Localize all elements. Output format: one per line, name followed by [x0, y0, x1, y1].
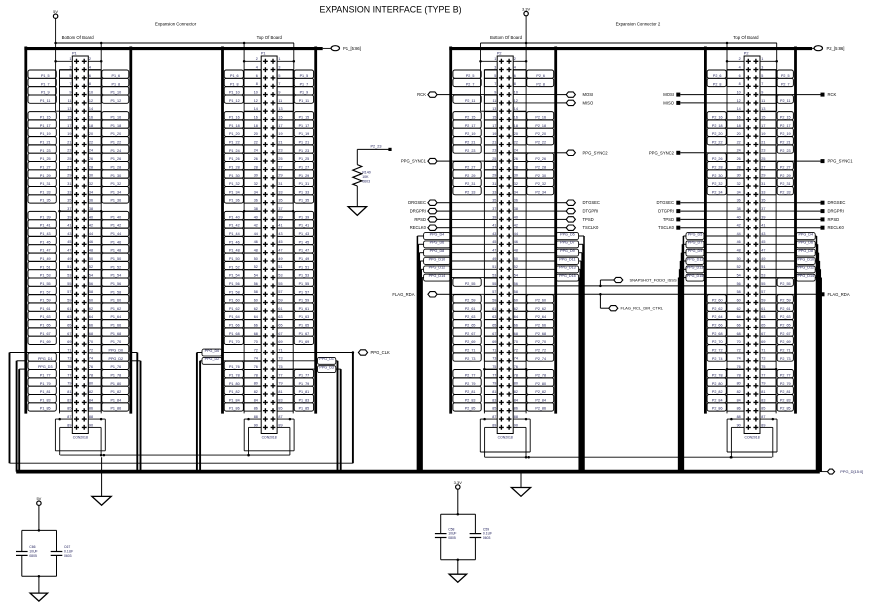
svg-text:1: 1 — [761, 57, 763, 61]
svg-text:5V: 5V — [53, 9, 58, 14]
svg-text:40: 40 — [89, 215, 93, 219]
svg-text:54: 54 — [737, 274, 741, 278]
svg-text:65: 65 — [761, 323, 765, 327]
svg-text:P2_81: P2_81 — [465, 390, 476, 394]
svg-text:83: 83 — [492, 398, 496, 402]
svg-text:32: 32 — [89, 182, 93, 186]
svg-text:Expansion Connector 2: Expansion Connector 2 — [616, 22, 661, 27]
svg-text:66: 66 — [89, 323, 93, 327]
svg-text:P1_27: P1_27 — [40, 165, 51, 169]
svg-text:P1_5: P1_5 — [300, 74, 309, 78]
svg-text:P1_44: P1_44 — [110, 232, 121, 236]
svg-text:P2_84: P2_84 — [535, 398, 546, 402]
svg-text:P1_77: P1_77 — [40, 373, 51, 377]
svg-text:P2_31: P2_31 — [465, 182, 476, 186]
svg-text:P1_68: P1_68 — [229, 332, 240, 336]
svg-text:P2_86: P2_86 — [712, 407, 723, 411]
svg-text:24: 24 — [514, 149, 518, 153]
svg-text:P1_34: P1_34 — [110, 190, 121, 194]
svg-text:23: 23 — [492, 149, 496, 153]
svg-text:P1_27: P1_27 — [299, 165, 310, 169]
svg-text:P1_26: P1_26 — [110, 157, 121, 161]
svg-text:9: 9 — [494, 90, 496, 94]
svg-text:21: 21 — [761, 140, 765, 144]
svg-text:50: 50 — [514, 257, 518, 261]
svg-text:24: 24 — [254, 149, 258, 153]
svg-text:P1_33: P1_33 — [299, 190, 310, 194]
svg-text:P2_81: P2_81 — [780, 390, 791, 394]
svg-text:16: 16 — [514, 115, 518, 119]
svg-text:P1_66: P1_66 — [229, 324, 240, 328]
svg-text:47: 47 — [67, 249, 71, 253]
svg-text:76: 76 — [254, 365, 258, 369]
svg-text:P1_18: P1_18 — [229, 124, 240, 128]
svg-text:P1_[5:86]: P1_[5:86] — [343, 46, 361, 51]
svg-text:11: 11 — [278, 99, 282, 103]
svg-text:PPG_D2: PPG_D2 — [205, 357, 220, 361]
svg-text:P1_68: P1_68 — [110, 332, 121, 336]
svg-text:40: 40 — [514, 215, 518, 219]
svg-text:64: 64 — [737, 315, 741, 319]
svg-text:P1: P1 — [72, 51, 77, 55]
svg-text:29: 29 — [761, 174, 765, 178]
svg-text:80: 80 — [737, 382, 741, 386]
svg-text:P2_17: P2_17 — [780, 124, 791, 128]
svg-text:73: 73 — [278, 357, 282, 361]
svg-text:DTGSEC: DTGSEC — [583, 200, 600, 205]
svg-text:P2_32: P2_32 — [712, 182, 723, 186]
svg-text:DRGPRI: DRGPRI — [410, 209, 426, 214]
svg-text:P1_7: P1_7 — [300, 82, 309, 86]
svg-text:P2_20: P2_20 — [535, 132, 546, 136]
svg-text:P1_30: P1_30 — [229, 174, 240, 178]
svg-text:P1_9: P1_9 — [41, 91, 50, 95]
svg-text:71: 71 — [278, 348, 282, 352]
svg-text:P1_22: P1_22 — [110, 141, 121, 145]
svg-text:PPG_D2: PPG_D2 — [109, 357, 124, 361]
svg-text:84: 84 — [89, 398, 93, 402]
svg-text:49: 49 — [278, 257, 282, 261]
svg-text:P2_68: P2_68 — [535, 332, 546, 336]
svg-text:P2_60: P2_60 — [535, 299, 546, 303]
svg-text:15: 15 — [492, 115, 496, 119]
svg-text:35: 35 — [278, 199, 282, 203]
svg-text:14: 14 — [254, 107, 258, 111]
svg-text:88: 88 — [514, 415, 518, 419]
svg-text:PPG_D15: PPG_D15 — [687, 274, 704, 278]
svg-text:P2_[5:86]: P2_[5:86] — [827, 46, 845, 51]
svg-text:25: 25 — [761, 157, 765, 161]
svg-text:26: 26 — [737, 157, 741, 161]
svg-text:P2_67: P2_67 — [465, 332, 476, 336]
svg-text:P1_57: P1_57 — [299, 290, 310, 294]
svg-text:P1_31: P1_31 — [40, 182, 51, 186]
svg-text:36: 36 — [254, 199, 258, 203]
svg-text:3: 3 — [494, 66, 496, 70]
svg-text:P2: P2 — [497, 51, 502, 55]
svg-text:12: 12 — [514, 99, 518, 103]
svg-text:12: 12 — [254, 99, 258, 103]
svg-text:38: 38 — [89, 207, 93, 211]
svg-text:52: 52 — [737, 265, 741, 269]
svg-text:P1_64: P1_64 — [229, 315, 240, 319]
svg-text:P1: P1 — [261, 51, 266, 55]
svg-text:P1_53: P1_53 — [40, 274, 51, 278]
svg-text:66: 66 — [254, 323, 258, 327]
svg-text:71: 71 — [761, 348, 765, 352]
svg-text:36: 36 — [514, 199, 518, 203]
svg-text:TPSD: TPSD — [663, 217, 674, 222]
svg-text:72: 72 — [737, 348, 741, 352]
svg-text:20: 20 — [89, 132, 93, 136]
svg-text:P1_65: P1_65 — [299, 324, 310, 328]
svg-text:51: 51 — [761, 265, 765, 269]
svg-text:29: 29 — [67, 174, 71, 178]
svg-text:34: 34 — [89, 190, 93, 194]
svg-text:DRGSEC: DRGSEC — [408, 200, 426, 205]
svg-text:DTGPRI: DTGPRI — [658, 209, 674, 214]
svg-text:P2_78: P2_78 — [712, 373, 723, 377]
svg-text:P2_74: P2_74 — [535, 357, 546, 361]
svg-text:44: 44 — [254, 232, 258, 236]
svg-text:25: 25 — [67, 157, 71, 161]
svg-text:P1_46: P1_46 — [229, 240, 240, 244]
svg-text:90: 90 — [514, 423, 518, 427]
svg-text:17: 17 — [67, 124, 71, 128]
svg-text:PPG_D4: PPG_D4 — [430, 232, 445, 236]
svg-text:TSCLK0: TSCLK0 — [658, 225, 674, 230]
svg-text:18: 18 — [737, 124, 741, 128]
svg-text:P1_78: P1_78 — [229, 373, 240, 377]
svg-text:P2_64: P2_64 — [535, 315, 546, 319]
svg-text:28: 28 — [89, 165, 93, 169]
svg-text:RPSD: RPSD — [414, 217, 426, 222]
svg-text:DRGPRI: DRGPRI — [828, 209, 844, 214]
svg-text:P1_28: P1_28 — [229, 165, 240, 169]
svg-text:43: 43 — [761, 232, 765, 236]
svg-text:39: 39 — [278, 215, 282, 219]
svg-text:P1_83: P1_83 — [299, 398, 310, 402]
svg-text:P1_16: P1_16 — [110, 116, 121, 120]
svg-text:26: 26 — [254, 157, 258, 161]
svg-text:76: 76 — [737, 365, 741, 369]
svg-text:49: 49 — [67, 257, 71, 261]
svg-text:P2_69: P2_69 — [780, 340, 791, 344]
svg-text:55: 55 — [492, 282, 496, 286]
svg-text:75: 75 — [492, 365, 496, 369]
svg-text:85: 85 — [278, 407, 282, 411]
svg-text:37: 37 — [761, 207, 765, 211]
svg-text:P1_59: P1_59 — [40, 299, 51, 303]
svg-text:41: 41 — [278, 224, 282, 228]
svg-text:P1_70: P1_70 — [229, 340, 240, 344]
svg-text:P2_61: P2_61 — [780, 307, 791, 311]
svg-text:P2_64: P2_64 — [712, 315, 723, 319]
svg-text:2: 2 — [89, 57, 91, 61]
svg-text:46: 46 — [737, 240, 741, 244]
svg-text:11: 11 — [761, 99, 765, 103]
svg-text:10: 10 — [89, 90, 93, 94]
svg-text:P1_19: P1_19 — [40, 132, 51, 136]
svg-text:43: 43 — [67, 232, 71, 236]
svg-text:62: 62 — [514, 307, 518, 311]
svg-text:70: 70 — [737, 340, 741, 344]
svg-text:74: 74 — [254, 357, 258, 361]
svg-text:P1_86: P1_86 — [229, 407, 240, 411]
svg-text:46: 46 — [89, 240, 93, 244]
svg-text:P1_53: P1_53 — [299, 274, 310, 278]
svg-text:68: 68 — [514, 332, 518, 336]
svg-text:81: 81 — [761, 390, 765, 394]
svg-text:P2_31: P2_31 — [780, 182, 791, 186]
svg-text:P2_5: P2_5 — [466, 74, 475, 78]
svg-text:48: 48 — [514, 249, 518, 253]
svg-text:TPSD: TPSD — [583, 217, 594, 222]
svg-text:P1_40: P1_40 — [110, 215, 121, 219]
svg-text:5: 5 — [494, 74, 496, 78]
svg-text:PPG_D5: PPG_D5 — [688, 232, 703, 236]
svg-text:13: 13 — [761, 107, 765, 111]
svg-text:MOSI: MOSI — [583, 92, 594, 97]
svg-text:26: 26 — [514, 157, 518, 161]
svg-text:1: 1 — [278, 57, 280, 61]
svg-text:7: 7 — [69, 82, 71, 86]
svg-text:89: 89 — [492, 423, 496, 427]
svg-text:75: 75 — [278, 365, 282, 369]
svg-text:P1_22: P1_22 — [229, 141, 240, 145]
svg-text:PPG_D9: PPG_D9 — [688, 249, 703, 253]
svg-text:41: 41 — [492, 224, 496, 228]
svg-text:P2_59: P2_59 — [465, 299, 476, 303]
svg-text:33: 33 — [67, 190, 71, 194]
svg-text:P1_40: P1_40 — [229, 215, 240, 219]
svg-text:87: 87 — [278, 415, 282, 419]
svg-text:59: 59 — [67, 298, 71, 302]
svg-text:61: 61 — [278, 307, 282, 311]
svg-text:P2_80: P2_80 — [535, 382, 546, 386]
svg-text:64: 64 — [514, 315, 518, 319]
svg-text:P1_55: P1_55 — [40, 282, 51, 286]
svg-text:61: 61 — [492, 307, 496, 311]
svg-text:P1_39: P1_39 — [299, 215, 310, 219]
svg-text:P1_21: P1_21 — [40, 141, 51, 145]
svg-text:15: 15 — [67, 115, 71, 119]
svg-text:29: 29 — [278, 174, 282, 178]
svg-text:P2_60: P2_60 — [712, 299, 723, 303]
svg-text:P2_61: P2_61 — [465, 307, 476, 311]
svg-text:27: 27 — [761, 165, 765, 169]
svg-text:MISO: MISO — [663, 100, 674, 105]
svg-text:36: 36 — [737, 199, 741, 203]
svg-text:62: 62 — [254, 307, 258, 311]
svg-text:P2_86: P2_86 — [535, 407, 546, 411]
svg-text:RPSD: RPSD — [828, 217, 840, 222]
svg-text:P1_48: P1_48 — [110, 249, 121, 253]
svg-text:P2_80: P2_80 — [712, 382, 723, 386]
svg-text:21: 21 — [492, 140, 496, 144]
svg-text:85: 85 — [492, 407, 496, 411]
svg-text:88: 88 — [89, 415, 93, 419]
svg-text:19: 19 — [761, 132, 765, 136]
svg-text:P2_63: P2_63 — [780, 315, 791, 319]
svg-text:P2_68: P2_68 — [712, 332, 723, 336]
svg-text:51: 51 — [492, 265, 496, 269]
svg-text:P2_65: P2_65 — [465, 324, 476, 328]
svg-text:82: 82 — [737, 390, 741, 394]
svg-text:16: 16 — [89, 115, 93, 119]
svg-text:P2_30: P2_30 — [535, 174, 546, 178]
svg-text:P1_41: P1_41 — [299, 224, 310, 228]
svg-text:P2_63: P2_63 — [465, 315, 476, 319]
svg-text:P2_67: P2_67 — [780, 332, 791, 336]
svg-text:P1_25: P1_25 — [40, 157, 51, 161]
svg-text:P1_19: P1_19 — [299, 132, 310, 136]
svg-text:P2_21: P2_21 — [465, 141, 476, 145]
svg-text:81: 81 — [67, 390, 71, 394]
svg-text:57: 57 — [278, 290, 282, 294]
svg-text:67: 67 — [278, 332, 282, 336]
svg-text:P1_83: P1_83 — [40, 398, 51, 402]
svg-text:37: 37 — [492, 207, 496, 211]
svg-text:P2_73: P2_73 — [780, 357, 791, 361]
svg-text:P1_31: P1_31 — [299, 182, 310, 186]
svg-text:73: 73 — [67, 357, 71, 361]
svg-text:74: 74 — [89, 357, 93, 361]
svg-text:54: 54 — [89, 274, 93, 278]
svg-text:88: 88 — [737, 415, 741, 419]
svg-text:PPG_D7: PPG_D7 — [688, 241, 703, 245]
svg-text:3.3V: 3.3V — [454, 480, 463, 485]
svg-text:PPG_D8: PPG_D8 — [798, 249, 813, 253]
svg-text:PPG_D6: PPG_D6 — [430, 241, 445, 245]
svg-text:P2_7: P2_7 — [466, 82, 475, 86]
svg-text:48: 48 — [737, 249, 741, 253]
svg-text:PPG_D12: PPG_D12 — [429, 266, 446, 270]
svg-text:P2_70: P2_70 — [535, 340, 546, 344]
svg-text:P1_6: P1_6 — [230, 74, 239, 78]
svg-text:12: 12 — [89, 99, 93, 103]
svg-text:P1_62: P1_62 — [110, 307, 121, 311]
svg-text:12: 12 — [737, 99, 741, 103]
svg-text:P2_8: P2_8 — [536, 82, 545, 86]
svg-text:P1_67: P1_67 — [40, 332, 51, 336]
svg-text:69: 69 — [278, 340, 282, 344]
svg-text:P1_45: P1_45 — [40, 240, 51, 244]
svg-text:8: 8 — [514, 82, 516, 86]
svg-text:49: 49 — [492, 257, 496, 261]
svg-text:P1_55: P1_55 — [299, 282, 310, 286]
svg-text:P1_63: P1_63 — [40, 315, 51, 319]
svg-text:68: 68 — [737, 332, 741, 336]
svg-text:21: 21 — [67, 140, 71, 144]
svg-text:P2_30: P2_30 — [712, 174, 723, 178]
svg-text:68: 68 — [89, 332, 93, 336]
svg-text:87: 87 — [492, 415, 496, 419]
svg-text:48: 48 — [254, 249, 258, 253]
svg-text:P1_66: P1_66 — [110, 324, 121, 328]
svg-text:P2_59: P2_59 — [780, 299, 791, 303]
svg-text:16: 16 — [254, 115, 258, 119]
svg-text:35: 35 — [492, 199, 496, 203]
svg-text:63: 63 — [492, 315, 496, 319]
svg-text:P2_79: P2_79 — [465, 382, 476, 386]
svg-text:P2_26: P2_26 — [712, 157, 723, 161]
svg-text:89: 89 — [67, 423, 71, 427]
svg-text:17: 17 — [278, 124, 282, 128]
svg-text:3: 3 — [761, 66, 763, 70]
svg-text:P1_81: P1_81 — [40, 390, 51, 394]
svg-text:66: 66 — [514, 323, 518, 327]
svg-text:4: 4 — [514, 66, 516, 70]
svg-text:82: 82 — [254, 390, 258, 394]
svg-text:30: 30 — [514, 174, 518, 178]
svg-text:64: 64 — [89, 315, 93, 319]
svg-text:80: 80 — [89, 382, 93, 386]
svg-text:71: 71 — [492, 348, 496, 352]
svg-text:61: 61 — [67, 307, 71, 311]
svg-text:86: 86 — [254, 407, 258, 411]
svg-text:PPG_D11: PPG_D11 — [559, 257, 575, 261]
svg-text:PPG_D[15:0]: PPG_D[15:0] — [840, 469, 863, 474]
svg-text:47: 47 — [761, 249, 765, 253]
svg-text:10K: 10K — [362, 175, 369, 179]
svg-text:79: 79 — [761, 382, 765, 386]
svg-text:69: 69 — [67, 340, 71, 344]
svg-text:P2_84: P2_84 — [712, 398, 723, 402]
svg-text:P2_27: P2_27 — [465, 165, 476, 169]
svg-text:64: 64 — [254, 315, 258, 319]
svg-text:0603: 0603 — [362, 180, 370, 184]
svg-text:43: 43 — [492, 232, 496, 236]
svg-text:FLAG_RDA: FLAG_RDA — [392, 292, 414, 297]
svg-text:53: 53 — [761, 274, 765, 278]
svg-text:P2_29: P2_29 — [465, 174, 476, 178]
svg-text:60: 60 — [254, 298, 258, 302]
svg-text:P2_16: P2_16 — [535, 116, 546, 120]
svg-text:20: 20 — [254, 132, 258, 136]
svg-text:56: 56 — [254, 282, 258, 286]
svg-text:P1_35: P1_35 — [40, 199, 51, 203]
svg-text:53: 53 — [278, 274, 282, 278]
svg-text:14: 14 — [514, 107, 518, 111]
svg-text:P2_20: P2_20 — [712, 132, 723, 136]
svg-text:P2_28: P2_28 — [535, 165, 546, 169]
svg-text:P2_79: P2_79 — [780, 382, 791, 386]
svg-text:P2_29: P2_29 — [780, 174, 791, 178]
svg-text:86: 86 — [737, 407, 741, 411]
svg-text:P1_50: P1_50 — [229, 257, 240, 261]
svg-text:23: 23 — [278, 149, 282, 153]
svg-text:78: 78 — [254, 373, 258, 377]
svg-text:P2_83: P2_83 — [780, 398, 791, 402]
svg-text:51: 51 — [67, 265, 71, 269]
svg-text:P1_54: P1_54 — [229, 274, 240, 278]
svg-text:77: 77 — [67, 373, 71, 377]
svg-text:CON2018: CON2018 — [262, 435, 277, 439]
svg-text:P2_73: P2_73 — [465, 357, 476, 361]
svg-text:P2_66: P2_66 — [535, 324, 546, 328]
svg-text:P1_10: P1_10 — [110, 91, 121, 95]
svg-text:P1_16: P1_16 — [229, 116, 240, 120]
svg-text:P2_78: P2_78 — [535, 373, 546, 377]
svg-text:P2_18: P2_18 — [712, 124, 723, 128]
svg-text:P1_17: P1_17 — [40, 124, 51, 128]
svg-text:63: 63 — [67, 315, 71, 319]
svg-text:6: 6 — [89, 74, 91, 78]
svg-text:P1_9: P1_9 — [300, 91, 309, 95]
svg-text:87: 87 — [67, 415, 71, 419]
svg-text:PPG_D3: PPG_D3 — [38, 365, 53, 369]
